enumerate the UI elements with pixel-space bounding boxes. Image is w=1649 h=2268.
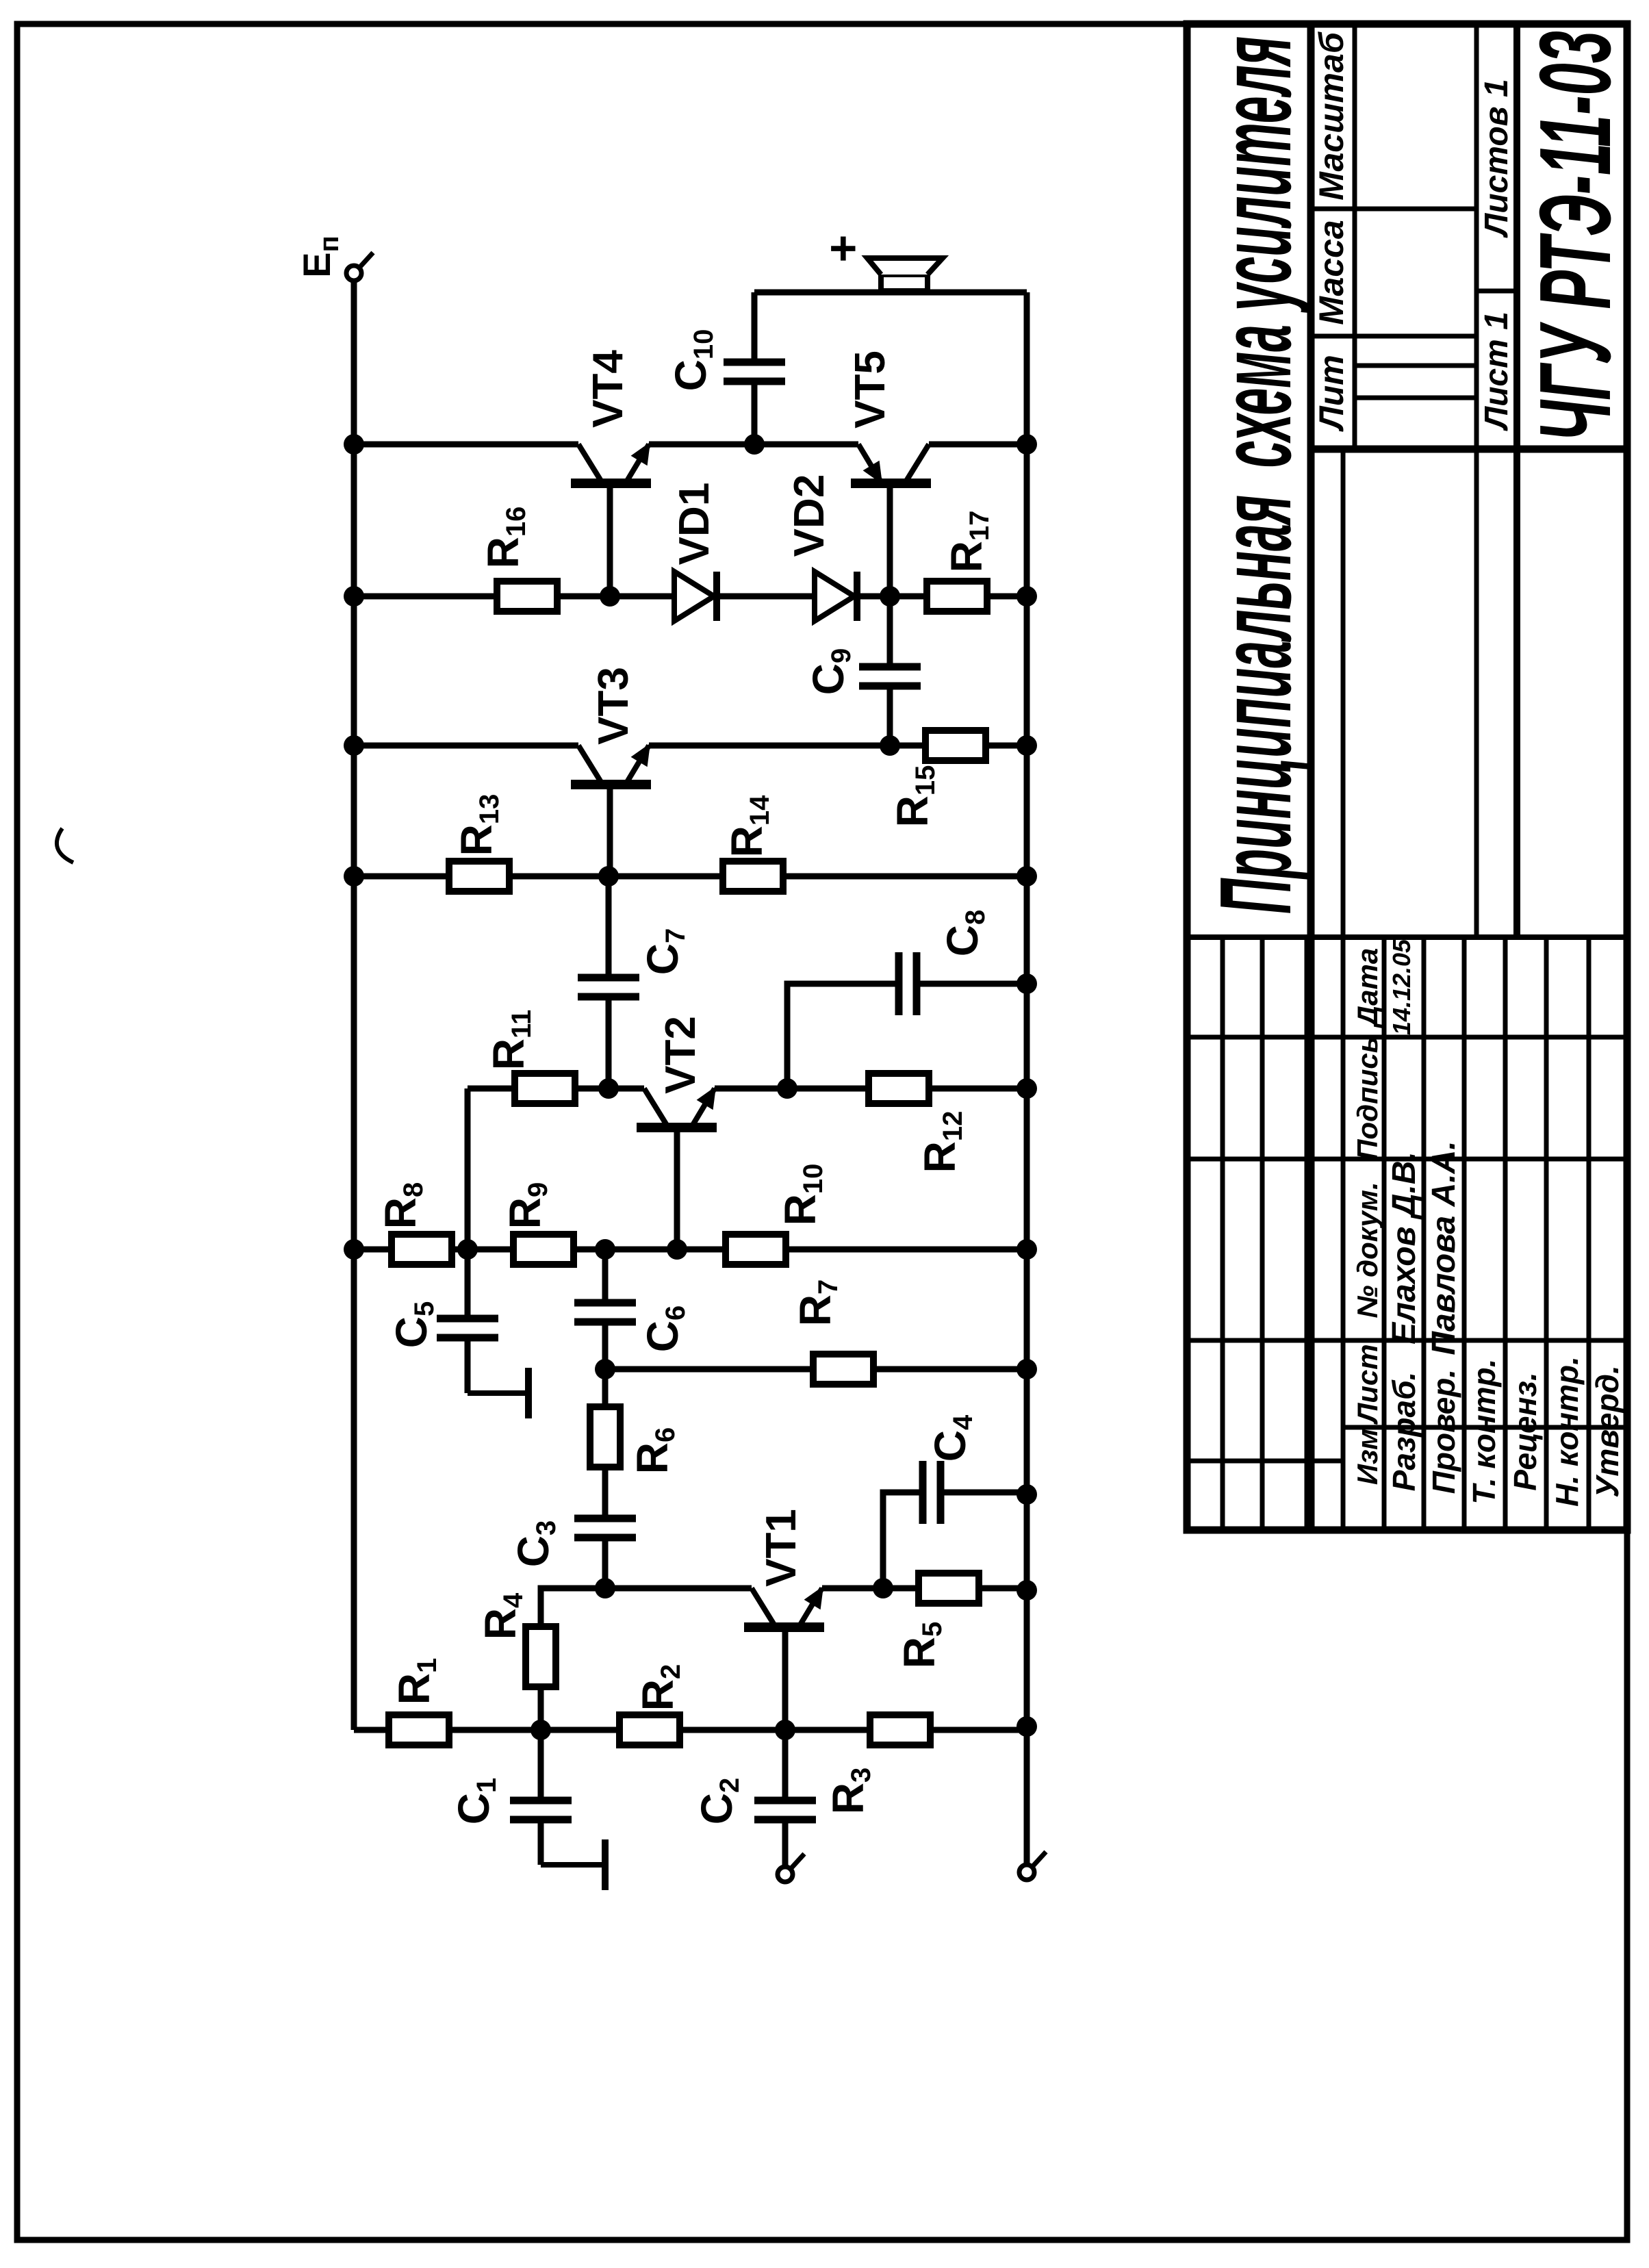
title block line above designation cell [1513, 24, 1520, 937]
wire C2 to VT1 base [782, 1627, 789, 1800]
wire C10 line left [752, 381, 758, 444]
column line [1187, 1035, 1627, 1040]
staff row line [1382, 937, 1387, 1530]
wire R16-VD1-VD2-R17 column [354, 594, 1027, 600]
svg-text:Изм: Изм [1351, 1429, 1383, 1485]
title block heavy line below name row [1307, 24, 1315, 1530]
svg-text:VT2: VT2 [657, 1016, 704, 1094]
resistor R12 [869, 1073, 929, 1104]
resistor R14 [723, 861, 783, 891]
capacitor C2 [754, 1800, 816, 1820]
junction [1017, 1580, 1037, 1601]
junction [598, 1078, 619, 1099]
wire VT4 base lead [607, 483, 613, 596]
resistor R10 [726, 1234, 786, 1264]
resistor R5 [919, 1573, 979, 1603]
wire VT2 emitter to R12 to rail [715, 1086, 1027, 1092]
svg-text:Принципиальная схема усилител: Принципиальная схема усилителя [1199, 36, 1312, 914]
scan artifact arc [57, 828, 73, 863]
svg-text:Лист: Лист [1351, 1344, 1383, 1425]
wire C1 branch [538, 1820, 544, 1865]
wire C4 branch top [883, 1492, 923, 1588]
junction [595, 1578, 615, 1598]
junction [1017, 434, 1037, 455]
wire C9 line left [887, 686, 893, 746]
junction [1017, 1484, 1037, 1505]
wire R7 branch [605, 1366, 1027, 1373]
transistor VT2 [637, 1088, 717, 1127]
column line [1187, 934, 1627, 940]
staff row line [1462, 937, 1467, 1530]
terminal Ep [346, 253, 373, 281]
wire input divider bus (R1-R2-R3) [354, 1727, 1027, 1733]
wire collector bus y884 seg2 (R6) [602, 1322, 609, 1518]
wire R4 branch / VT1 collector [541, 1588, 752, 1730]
junction [880, 586, 900, 607]
junction [1017, 973, 1037, 994]
resistor R2 [619, 1715, 680, 1745]
capacitor C3 [574, 1518, 636, 1538]
resistor R1 [389, 1715, 449, 1745]
staff row line [1422, 937, 1427, 1530]
junction [1017, 735, 1037, 756]
svg-text:VT5: VT5 [847, 351, 894, 429]
list/listov divider [1477, 289, 1517, 294]
wire VT4 collector [354, 442, 578, 448]
resistor R16 [497, 581, 557, 611]
wire C7 line right [606, 876, 612, 978]
svg-text:Елахов Д.В.: Елахов Д.В. [1386, 1151, 1422, 1345]
revision row line [1260, 937, 1265, 1530]
resistor R4 [526, 1627, 556, 1687]
junction [344, 866, 364, 887]
junction [1017, 1078, 1037, 1099]
wire C5 line left [465, 1338, 471, 1393]
staff row line [1503, 937, 1508, 1530]
junction [1017, 1359, 1037, 1379]
capacitor C6 [574, 1303, 636, 1322]
junction [873, 1578, 893, 1598]
wire speaker column [754, 290, 1027, 296]
title block outer [1187, 24, 1627, 1530]
diode VD1 [674, 572, 717, 621]
terminal input ground [1019, 1852, 1046, 1880]
junction [667, 1239, 687, 1260]
junction [777, 1078, 797, 1099]
junction [1017, 1716, 1037, 1737]
svg-text:Лист 1: Лист 1 [1479, 311, 1515, 431]
lit sub column [1355, 396, 1477, 400]
junction [1017, 1239, 1037, 1260]
svg-text:№ докум.: № докум. [1351, 1182, 1383, 1318]
capacitor C7 [578, 978, 639, 997]
wire ground rail [1024, 292, 1030, 1865]
wire Ep supply rail [351, 281, 357, 1730]
svg-text:ЧГУ РТЭ-11-03: ЧГУ РТЭ-11-03 [1519, 31, 1632, 442]
svg-text:VT4: VT4 [585, 350, 632, 428]
wire VT3 base lead [607, 785, 613, 876]
ground symbol (C1) [541, 1839, 605, 1890]
resistor R9 [513, 1234, 574, 1264]
revision row line [1220, 937, 1225, 1530]
wire VT4 emitter / output node [649, 442, 858, 448]
revision row line [1305, 937, 1309, 1530]
diode VD2 [815, 572, 857, 621]
wire VT3 emitter to R15 to rail [649, 743, 1027, 749]
junction [775, 1720, 795, 1740]
resistor R15 [925, 730, 986, 761]
svg-text:Н. контр.: Н. контр. [1549, 1356, 1585, 1507]
loudspeaker BA [867, 258, 943, 291]
wire C10 line right [752, 292, 758, 362]
svg-text:VT1: VT1 [758, 1509, 805, 1587]
column line [1187, 1338, 1627, 1343]
wire C7 line left [606, 997, 612, 1088]
junction [595, 1359, 615, 1379]
svg-text:Подпись: Подпись [1351, 1036, 1383, 1160]
junction [344, 1239, 364, 1260]
svg-text:Павлова А.А.: Павлова А.А. [1426, 1141, 1462, 1355]
junction [598, 866, 619, 887]
capacitor C5 [437, 1318, 498, 1338]
svg-text:VD1: VD1 [671, 483, 718, 565]
svg-text:VD2: VD2 [786, 474, 833, 557]
terminal input [778, 1854, 804, 1882]
junction [595, 1239, 615, 1260]
column line [1311, 207, 1477, 212]
svg-text:Дата: Дата [1351, 948, 1383, 1028]
wire C4 branch bottom [941, 1490, 1027, 1496]
svg-text:Разраб.: Разраб. [1386, 1372, 1422, 1492]
lit sub column [1355, 364, 1477, 368]
title block row line [1341, 449, 1346, 1530]
wire input to C2 [782, 1820, 789, 1867]
column line [1187, 1459, 1343, 1464]
title block row line [1474, 24, 1479, 937]
junction [344, 434, 364, 455]
column line [1187, 1157, 1627, 1162]
capacitor C1 [510, 1800, 572, 1820]
svg-text:Утверд.: Утверд. [1589, 1365, 1625, 1498]
svg-text:Т. контр.: Т. контр. [1466, 1359, 1502, 1505]
junction [744, 434, 765, 455]
wire C8 to rail [917, 981, 1027, 987]
svg-text:Масса: Масса [1312, 220, 1351, 325]
resistor R6 [590, 1407, 620, 1467]
ground symbol (C5) [468, 1368, 528, 1418]
junction [1017, 586, 1037, 607]
transistor VT4 [571, 444, 651, 483]
junction [531, 1720, 551, 1740]
junction [600, 586, 620, 607]
junction [1017, 866, 1037, 887]
resistor R11 [515, 1073, 575, 1104]
transistor VT3 [571, 746, 651, 785]
wire VT2 base lead [674, 1127, 680, 1249]
svg-text:VT3: VT3 [590, 667, 637, 745]
resistor R17 [927, 581, 987, 611]
title block heavy divider [1311, 446, 1627, 453]
junction [880, 735, 900, 756]
resistor R3 [870, 1715, 930, 1745]
wire collector bus y884 seg1 [602, 1538, 609, 1588]
wire C5 line right [465, 1088, 471, 1318]
svg-text:Провер.: Провер. [1426, 1369, 1461, 1494]
column line [1311, 334, 1477, 339]
capacitor C10 [724, 362, 785, 381]
junction [344, 735, 364, 756]
transistor VT1 [744, 1588, 824, 1627]
staff row line [1587, 937, 1592, 1530]
staff row line [1544, 937, 1549, 1530]
wire VT5 collector to rail [929, 442, 1027, 448]
svg-text:+: + [816, 235, 869, 263]
capacitor C4 [923, 1461, 941, 1524]
capacitor C9 [859, 667, 921, 686]
wire VT1 emitter to R5 to rail [822, 1585, 1027, 1592]
svg-text:Лит: Лит [1312, 355, 1351, 431]
svg-text:Реценз.: Реценз. [1507, 1372, 1543, 1490]
wire C1 to node [538, 1730, 544, 1800]
resistor R7 [813, 1354, 873, 1384]
capacitor C8 [899, 952, 917, 1015]
wire R8-R9-R10 column [354, 1247, 1027, 1253]
junction [457, 1239, 478, 1260]
title block row line [1353, 24, 1357, 449]
transistor VT5 (PNP) [851, 444, 931, 483]
column line [1343, 1425, 1627, 1430]
svg-text:Масштаб: Масштаб [1312, 31, 1351, 201]
wire collector bus y884 seg3 [602, 1249, 609, 1303]
junction [344, 586, 364, 607]
wire C9 line right (VT5 base lead) [887, 483, 893, 667]
wire R11 / VT2 column upper [468, 1086, 644, 1092]
svg-text:Листов 1: Листов 1 [1479, 79, 1515, 238]
svg-text:14.12.05: 14.12.05 [1388, 939, 1416, 1035]
wire R13-R14 column [354, 874, 1027, 880]
wire C8 link [787, 984, 899, 1088]
resistor R8 [392, 1234, 452, 1264]
wire VT3 collector [354, 743, 578, 749]
resistor R13 [449, 861, 509, 891]
